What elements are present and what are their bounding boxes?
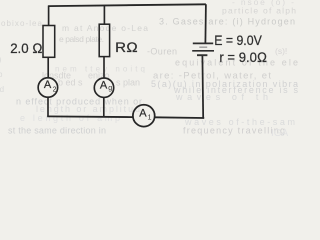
svg-text:-Ouren: -Ouren: [147, 46, 177, 56]
svg-text:particle of alph: particle of alph: [222, 5, 296, 15]
svg-text:b ed s: b ed s: [58, 78, 83, 88]
svg-text:obixo-lea: obixo-lea: [1, 19, 43, 28]
wire middle branch upper: [103, 5, 105, 24]
svg-text:E = 9.0V: E = 9.0V: [214, 32, 262, 48]
resistor R2 R ohm: [99, 24, 109, 56]
svg-text:st the same direction in: st the same direction in: [8, 125, 106, 135]
svg-text:RΩ: RΩ: [115, 39, 138, 55]
wire left branch upper: [48, 6, 50, 26]
wire right branch lower: [201, 56, 204, 119]
svg-text:2.0 Ω: 2.0 Ω: [10, 40, 43, 56]
wire bottom right horizontal: [155, 116, 205, 119]
ammeter A1 circle: [133, 105, 155, 127]
wire bottom left horizontal: [47, 115, 133, 118]
svg-text:1: 1: [148, 115, 152, 122]
ammeter A2 circle: [38, 78, 58, 98]
svg-text:(s)!: (s)!: [275, 46, 287, 56]
svg-text:r = 9.0Ω: r = 9.0Ω: [219, 49, 267, 65]
resistor R1 2.0 ohm: [43, 26, 55, 58]
svg-text:frequency travelling: frequency travelling: [183, 126, 285, 136]
battery short plate bottom: [197, 54, 207, 56]
battery short plate upper: [199, 46, 207, 48]
svg-text:2: 2: [53, 86, 57, 93]
svg-text:A: A: [100, 79, 108, 91]
battery long plate lower: [192, 50, 214, 52]
svg-text:A: A: [139, 107, 147, 119]
wire top horizontal: [48, 4, 206, 6]
svg-text:IGA: IGA: [271, 128, 289, 137]
svg-text:e palsd plate.: e palsd plate.: [59, 34, 104, 44]
wire R1 to A2: [47, 57, 49, 78]
svg-text:s plan: s plan: [116, 78, 140, 88]
wire R2 to A9: [103, 57, 105, 79]
svg-text:(d: (d: [0, 85, 4, 94]
svg-text:g: g: [108, 85, 112, 92]
svg-text:A: A: [44, 79, 52, 91]
wire right branch upper: [204, 4, 207, 42]
wire A9 to bottom: [103, 98, 105, 118]
wire A2 to bottom: [47, 97, 49, 116]
battery long plate top: [193, 42, 213, 44]
svg-text:3. Gases are: (i) Hydrogen: 3. Gases are: (i) Hydrogen: [159, 17, 295, 27]
ammeter A9 circle: [94, 78, 113, 97]
